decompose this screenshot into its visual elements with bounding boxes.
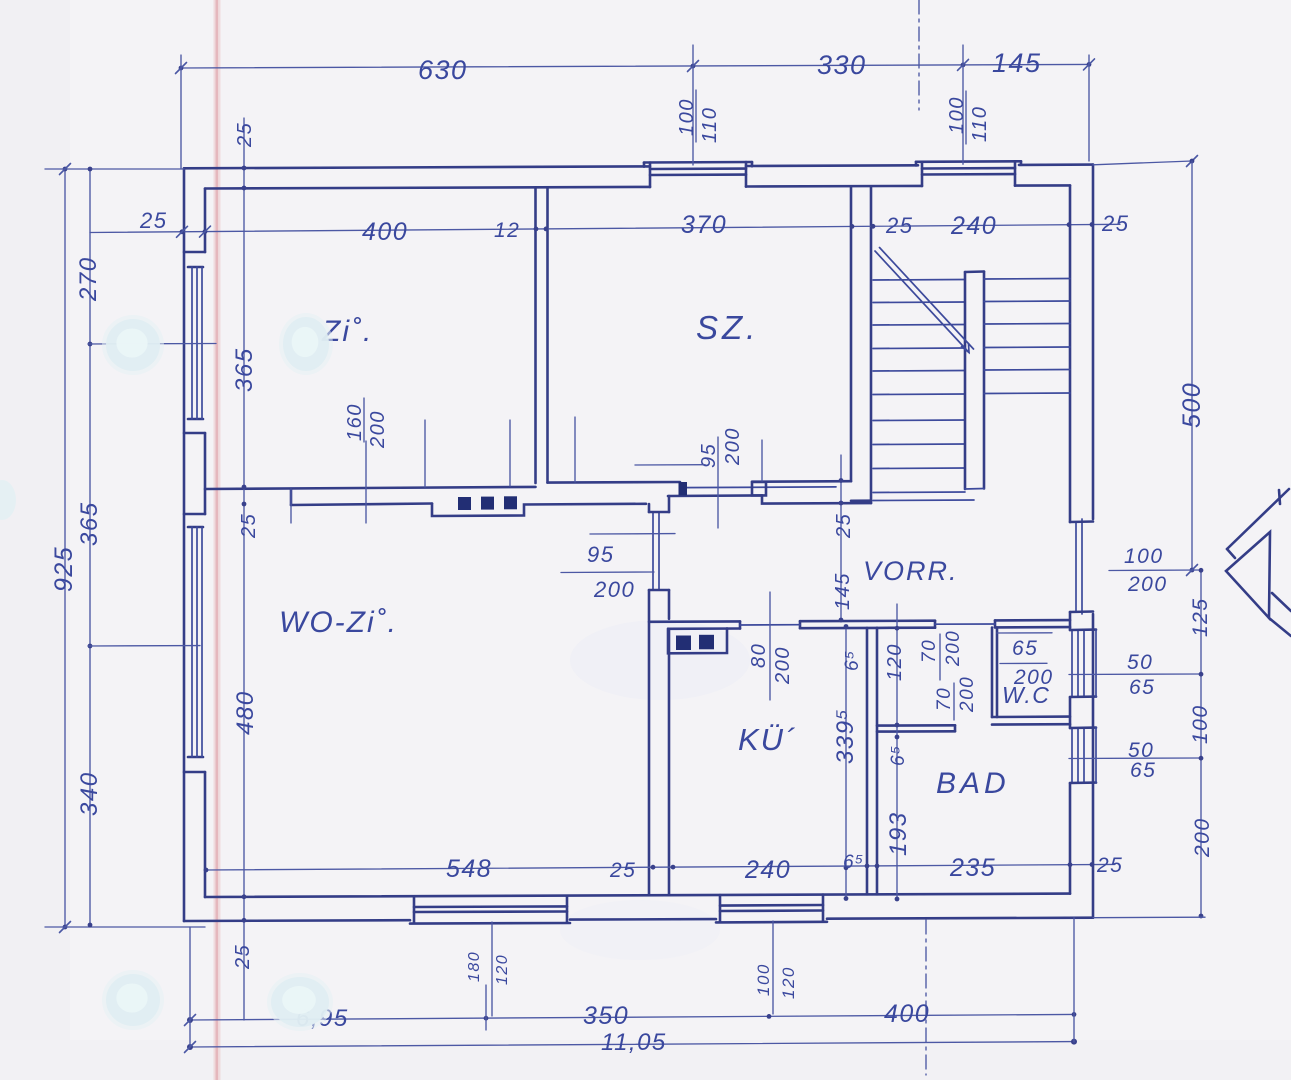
svg-text:200: 200 — [1127, 573, 1168, 596]
svg-text:235: 235 — [949, 854, 996, 882]
svg-text:100: 100 — [946, 96, 968, 134]
svg-text:200: 200 — [722, 427, 744, 466]
svg-text:120: 120 — [884, 643, 906, 681]
svg-text:500: 500 — [1178, 382, 1206, 428]
svg-text:25: 25 — [232, 944, 254, 970]
svg-text:WO-Zi˚.: WO-Zi˚. — [279, 606, 398, 639]
svg-text:180: 180 — [466, 951, 483, 982]
svg-text:340: 340 — [76, 771, 103, 816]
svg-text:200: 200 — [1191, 817, 1214, 858]
svg-text:25: 25 — [234, 122, 256, 148]
svg-text:400: 400 — [362, 218, 408, 246]
svg-text:365: 365 — [231, 347, 258, 392]
svg-text:100: 100 — [1124, 545, 1164, 568]
svg-text:50: 50 — [1127, 651, 1153, 674]
svg-text:370: 370 — [681, 211, 727, 239]
svg-text:240: 240 — [744, 856, 791, 884]
svg-text:25: 25 — [833, 513, 855, 539]
svg-text:65: 65 — [1130, 759, 1156, 782]
svg-text:925: 925 — [50, 546, 78, 592]
svg-text:270: 270 — [75, 256, 102, 302]
svg-text:145: 145 — [992, 48, 1042, 78]
svg-text:339⁵: 339⁵ — [832, 708, 859, 764]
svg-text:70: 70 — [919, 639, 940, 663]
svg-text:200: 200 — [772, 646, 794, 685]
svg-text:120: 120 — [494, 954, 511, 985]
svg-text:400: 400 — [884, 1000, 930, 1028]
svg-text:160: 160 — [344, 403, 366, 441]
svg-text:200: 200 — [957, 676, 978, 713]
svg-text:120: 120 — [779, 966, 798, 999]
svg-text:KÜ´: KÜ´ — [738, 722, 797, 757]
svg-text:W.C: W.C — [1002, 682, 1050, 708]
svg-text:548: 548 — [446, 855, 492, 883]
svg-text:110: 110 — [969, 106, 991, 142]
svg-text:SZ.: SZ. — [696, 309, 759, 346]
svg-text:110: 110 — [699, 107, 721, 143]
svg-text:6⁵: 6⁵ — [888, 744, 909, 766]
svg-text:65: 65 — [1012, 637, 1038, 660]
svg-text:25: 25 — [139, 208, 167, 233]
svg-text:193: 193 — [885, 811, 912, 856]
svg-text:65: 65 — [1129, 676, 1155, 699]
svg-text:25: 25 — [1101, 211, 1129, 236]
svg-text:VORR.: VORR. — [863, 556, 959, 586]
svg-text:6⁵: 6⁵ — [843, 852, 865, 873]
svg-text:240: 240 — [950, 212, 997, 240]
svg-text:6⁵: 6⁵ — [842, 649, 863, 671]
svg-text:25: 25 — [885, 213, 913, 238]
svg-text:125: 125 — [1189, 597, 1212, 637]
svg-text:200: 200 — [593, 577, 635, 602]
svg-text:630: 630 — [418, 55, 468, 85]
svg-text:80: 80 — [748, 643, 770, 668]
svg-text:11,05: 11,05 — [601, 1029, 667, 1056]
svg-text:70: 70 — [934, 687, 955, 711]
svg-text:350: 350 — [583, 1002, 629, 1030]
svg-text:145: 145 — [832, 572, 854, 610]
svg-text:100: 100 — [754, 963, 773, 996]
svg-text:BAD: BAD — [936, 767, 1010, 800]
svg-text:25: 25 — [1096, 854, 1123, 877]
svg-text:480: 480 — [232, 690, 259, 735]
svg-text:100: 100 — [676, 98, 698, 136]
svg-text:25: 25 — [609, 859, 636, 882]
svg-text:330: 330 — [817, 50, 867, 80]
svg-text:95: 95 — [587, 542, 614, 567]
svg-text:200: 200 — [943, 630, 964, 667]
svg-text:12: 12 — [494, 219, 520, 242]
svg-text:100: 100 — [1189, 704, 1212, 744]
svg-text:365: 365 — [76, 501, 103, 546]
svg-text:200: 200 — [367, 410, 389, 449]
svg-text:25: 25 — [238, 513, 260, 539]
